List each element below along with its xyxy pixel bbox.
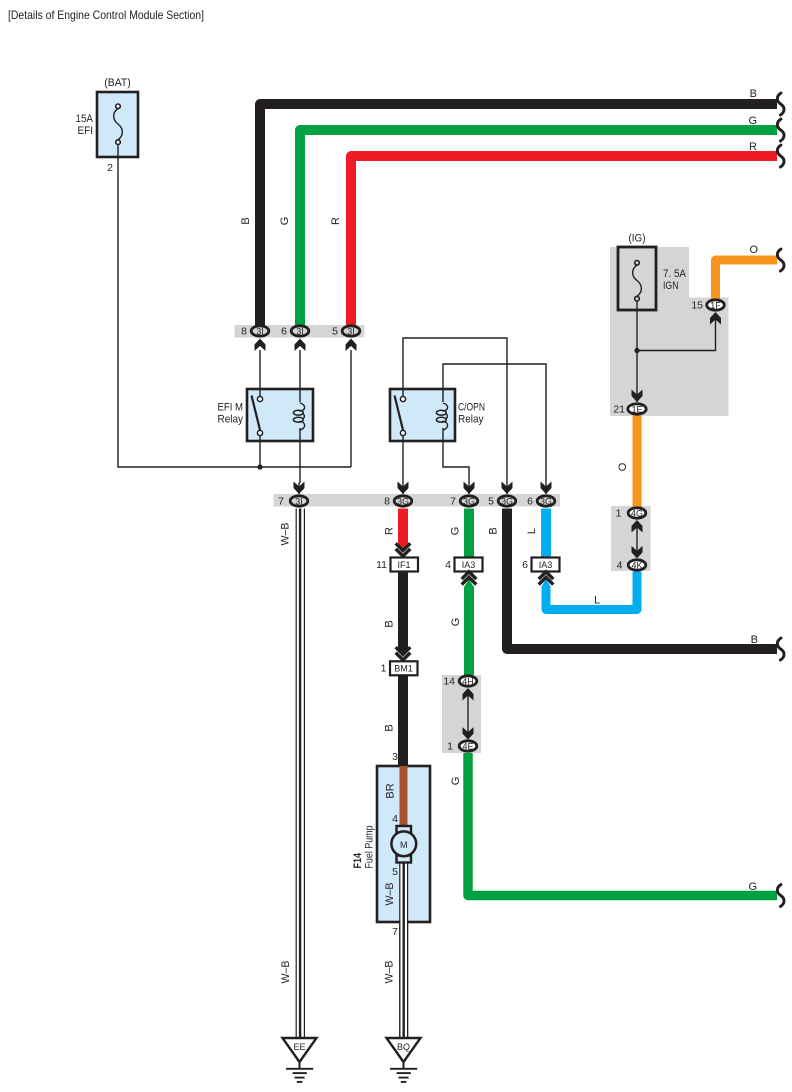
- junction block shading (IG) area: [610, 247, 689, 416]
- svg-text:G: G: [748, 115, 757, 127]
- wire IG node to 1F: [637, 313, 716, 351]
- svg-text:4K: 4K: [631, 561, 642, 571]
- wire G (green) IA3 to 4H: [464, 587, 474, 676]
- svg-text:G: G: [450, 618, 462, 627]
- arrow down into 7 3I: [294, 482, 305, 495]
- connector 14 4H: [459, 676, 477, 686]
- connector 6 IA3: [532, 558, 560, 572]
- fuse IGN 7.5A (IG): [618, 233, 687, 311]
- svg-text:G: G: [748, 881, 757, 893]
- svg-text:BM1: BM1: [394, 664, 413, 674]
- svg-text:3I: 3I: [347, 327, 355, 337]
- svg-text:3G: 3G: [397, 497, 409, 507]
- svg-text:4: 4: [445, 559, 451, 571]
- svg-text:4: 4: [617, 560, 623, 572]
- wire C/OPN coil bottom to 7 3G: [443, 429, 469, 494]
- svg-text:2: 2: [107, 162, 113, 174]
- svg-text:1E: 1E: [631, 405, 642, 415]
- wire C/OPN switch bottom to 8 3G: [402, 436, 404, 494]
- svg-text:G: G: [450, 777, 462, 786]
- svg-text:4G: 4G: [631, 509, 643, 519]
- arrow down into 4K: [632, 546, 643, 559]
- svg-text:W–B: W–B: [384, 961, 396, 984]
- svg-text:W–B: W–B: [280, 523, 292, 546]
- svg-text:3I: 3I: [296, 327, 304, 337]
- svg-text:7: 7: [278, 496, 284, 508]
- wire BR (brown) inside pump: [400, 766, 408, 828]
- connector 6 3I: [291, 326, 309, 336]
- svg-text:EFI: EFI: [78, 125, 94, 137]
- wire W-B from 7 3I to ground EE: [297, 509, 304, 1039]
- connector 5 3G: [498, 496, 516, 506]
- svg-text:B: B: [384, 724, 396, 731]
- wire G (green) 4E to right edge: [468, 753, 777, 896]
- svg-text:14: 14: [443, 676, 455, 688]
- svg-text:5: 5: [392, 866, 398, 878]
- svg-text:6: 6: [527, 496, 533, 508]
- connector 15 1F: [707, 300, 725, 310]
- wire 6 3I to EFI relay coil: [299, 350, 301, 401]
- connector 1 4G: [628, 508, 646, 518]
- arrow up into 1F: [710, 312, 721, 325]
- connector block band 4H-4E: [442, 675, 481, 753]
- connector 6 3G: [537, 496, 555, 506]
- svg-text:O: O: [749, 244, 758, 256]
- svg-text:B: B: [488, 527, 500, 534]
- wire continuation curl G lower: [777, 885, 784, 907]
- svg-text:5: 5: [488, 496, 494, 508]
- wire B (black) IF1 to BM1: [398, 572, 408, 650]
- wire from fuse EFI pin 2 down and across: [118, 157, 351, 467]
- wire G (green) 7 3G to IA3: [464, 509, 474, 559]
- wire L (blue) from IA3 to 4K: [546, 572, 637, 610]
- svg-text:O: O: [617, 462, 629, 471]
- wire O (orange) 1E to 4G: [633, 416, 642, 508]
- wire W-B inside pump redrawn: [400, 861, 407, 1038]
- svg-text:[Details of Engine Control Mod: [Details of Engine Control Module Sectio…: [8, 9, 204, 22]
- arrow up into 6 3I: [295, 339, 306, 352]
- svg-text:7: 7: [392, 926, 398, 938]
- wire O (orange) from 1F to right edge: [716, 260, 778, 299]
- wire 5 3I to horizontal node: [350, 350, 352, 467]
- wire C/OPN coil top to 6 3G: [443, 364, 546, 494]
- connector 7 3I: [290, 496, 308, 506]
- wire L (blue) from 6 3G to IA3: [541, 509, 551, 559]
- chevron into BM1 (down): [396, 647, 411, 660]
- wire between 4H and 4E: [467, 689, 469, 737]
- svg-text:G: G: [279, 217, 291, 226]
- svg-text:W–B: W–B: [384, 883, 396, 906]
- svg-text:R: R: [330, 217, 342, 225]
- svg-text:BQ: BQ: [397, 1042, 410, 1052]
- svg-text:B: B: [240, 217, 252, 224]
- svg-text:6: 6: [281, 326, 287, 338]
- wire B (black) BM1 to fuel pump pin 3: [398, 675, 408, 767]
- svg-text:3G: 3G: [463, 497, 475, 507]
- svg-text:4H: 4H: [462, 677, 474, 687]
- svg-text:W–B: W–B: [280, 961, 292, 984]
- svg-text:IGN: IGN: [663, 280, 679, 292]
- svg-text:3I: 3I: [256, 327, 264, 337]
- svg-text:15: 15: [691, 300, 703, 312]
- svg-text:1: 1: [616, 508, 622, 520]
- wire BR inside pump redrawn over box: [400, 766, 408, 828]
- wire B main (black) top: [260, 104, 777, 325]
- connector 21 1E: [628, 404, 646, 414]
- arrow up into 4H: [463, 688, 474, 701]
- svg-text:1: 1: [447, 741, 453, 753]
- arrow down into 8 3G: [398, 482, 409, 495]
- chevron out of 6 IA3 (up): [539, 572, 554, 585]
- svg-text:G: G: [450, 527, 462, 536]
- svg-text:11: 11: [376, 559, 387, 571]
- wire continuation curl G top: [777, 119, 784, 141]
- connector 8 3G: [394, 496, 412, 506]
- wire R main (red) top: [351, 156, 777, 325]
- svg-text:IA3: IA3: [539, 560, 553, 570]
- svg-text:C/OPN: C/OPN: [458, 402, 485, 414]
- chevron into IF1 (down): [396, 543, 411, 556]
- svg-text:R: R: [749, 141, 757, 153]
- connector 1 BM1: [390, 661, 418, 675]
- svg-text:B: B: [750, 88, 757, 100]
- svg-text:B: B: [751, 634, 758, 646]
- arrow up into 5 3I: [346, 339, 357, 352]
- wire G main (green) top: [300, 130, 777, 325]
- svg-text:IA3: IA3: [462, 560, 476, 570]
- svg-text:Fuel Pump: Fuel Pump: [363, 826, 375, 869]
- svg-text:5: 5: [332, 326, 338, 338]
- svg-text:21: 21: [613, 404, 625, 416]
- svg-text:BR: BR: [385, 783, 397, 798]
- svg-text:4E: 4E: [462, 742, 473, 752]
- svg-text:EE: EE: [293, 1042, 305, 1052]
- svg-text:L: L: [526, 528, 538, 534]
- svg-text:(BAT): (BAT): [104, 77, 131, 89]
- connector 11 IF1: [391, 558, 419, 572]
- connector 8 3I: [251, 326, 269, 336]
- svg-text:Relay: Relay: [218, 414, 244, 426]
- connector 5 3I: [342, 326, 360, 336]
- wire C/OPN switch top to 5 3G: [403, 338, 507, 494]
- svg-text:7. 5A: 7. 5A: [663, 268, 687, 280]
- ground EE: [283, 1038, 317, 1082]
- svg-text:15A: 15A: [76, 113, 94, 125]
- svg-text:8: 8: [241, 326, 247, 338]
- svg-text:3G: 3G: [540, 497, 552, 507]
- svg-text:M: M: [400, 840, 408, 850]
- arrow down into 7 3G: [464, 482, 475, 495]
- wire continuation curl O: [777, 249, 784, 271]
- wire EFI relay switch to node: [259, 436, 261, 467]
- connector 7 3G: [460, 496, 478, 506]
- chevron out of 4 IA3 (up): [462, 572, 477, 585]
- arrow down into 5 3G: [502, 482, 513, 495]
- svg-text:3: 3: [392, 751, 398, 763]
- junction dot IG node: [634, 348, 639, 353]
- wire continuation curl B top: [777, 93, 784, 115]
- svg-text:4: 4: [392, 813, 398, 825]
- svg-text:8: 8: [384, 496, 390, 508]
- connector 4 4K: [628, 560, 646, 570]
- fuse EFI 15A (BAT): [76, 77, 139, 157]
- relay EFI M: [218, 389, 314, 441]
- arrow down into 6 3G: [541, 482, 552, 495]
- svg-text:(IG): (IG): [629, 233, 646, 245]
- arrow down into 1E: [632, 390, 643, 403]
- connector block band 4G-4K: [611, 506, 651, 571]
- svg-text:R: R: [384, 527, 396, 535]
- connector block band 3I row: [235, 325, 365, 338]
- wire R (red) 8 3G to IF1: [398, 509, 408, 544]
- wire IG fuse to 1E: [636, 299, 638, 402]
- relay C/OPN: [390, 389, 485, 441]
- motor M of fuel pump: [391, 826, 416, 863]
- svg-text:3G: 3G: [501, 497, 513, 507]
- svg-text:7: 7: [450, 496, 456, 508]
- wire EFI relay coil to 7 3I: [299, 429, 300, 483]
- svg-text:L: L: [594, 595, 600, 607]
- ground BQ: [387, 1038, 421, 1082]
- fuel pump F14 box: [377, 766, 430, 922]
- junction dot EFI node: [257, 464, 262, 469]
- svg-text:IF1: IF1: [397, 560, 410, 570]
- svg-text:B: B: [384, 620, 396, 627]
- connector 1 4E: [459, 741, 477, 751]
- svg-text:Relay: Relay: [458, 414, 484, 426]
- svg-text:EFI M: EFI M: [218, 402, 244, 414]
- wire W-B from pump motor to ground BQ: [400, 861, 407, 1038]
- arrow up into 8 3I: [255, 339, 266, 352]
- wire 8 3I to EFI relay switch: [259, 350, 261, 396]
- junction block shading 1F area: [689, 298, 729, 417]
- wire continuation curl R top: [777, 145, 784, 167]
- arrow down into 4E: [463, 727, 474, 740]
- arrow up into 4G: [632, 520, 643, 533]
- svg-text:1: 1: [381, 663, 387, 675]
- connector 4 IA3: [455, 558, 483, 572]
- wire B (black) 5 3G to right edge: [507, 509, 777, 650]
- svg-text:1F: 1F: [710, 301, 721, 311]
- connector block band 3G row: [274, 494, 561, 507]
- svg-text:3I: 3I: [295, 497, 303, 507]
- wire continuation curl B lower: [777, 638, 784, 660]
- svg-text:6: 6: [522, 559, 528, 571]
- wire between 4G and 4K: [636, 521, 638, 551]
